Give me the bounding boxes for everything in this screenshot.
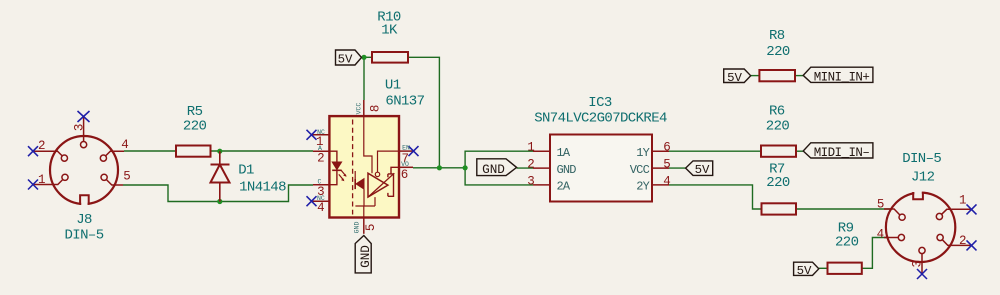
R5 value bbox=[183, 119, 207, 135]
J8 pin 3 bbox=[81, 117, 87, 148]
no-connect U1 pin 1 bbox=[307, 130, 317, 140]
junction at 5V/R10 bbox=[361, 55, 366, 60]
svg-text:EN: EN bbox=[402, 144, 410, 151]
IC3 pin number 5 bbox=[663, 158, 671, 172]
svg-text:6N137: 6N137 bbox=[385, 93, 424, 109]
IC3 pin number 1 bbox=[527, 141, 535, 155]
resistor R10 bbox=[372, 52, 408, 63]
U1 internal dashed isolation line bbox=[352, 120, 354, 215]
J8 pin 2 bbox=[33, 151, 68, 161]
R5 reference bbox=[187, 104, 203, 120]
svg-text:1Y: 1Y bbox=[636, 146, 649, 160]
svg-text:R5: R5 bbox=[187, 104, 203, 120]
svg-text:3: 3 bbox=[72, 124, 86, 132]
svg-text:J12: J12 bbox=[911, 170, 935, 186]
J12 pin number 3 bbox=[911, 260, 925, 268]
svg-text:5V: 5V bbox=[797, 264, 812, 278]
U1 optical arrows bbox=[339, 170, 347, 181]
IC3 value SN74LVC2G07DCKRE4 bbox=[534, 110, 667, 126]
wire 5V to R8 bbox=[751, 75, 760, 77]
wire R7 to J12 pin5 bbox=[796, 208, 891, 210]
svg-text:2: 2 bbox=[317, 151, 325, 165]
U1 pin name VO bbox=[401, 161, 409, 168]
svg-text:IC3: IC3 bbox=[588, 95, 612, 111]
IC3 pin name 1A bbox=[557, 146, 571, 160]
R9 value bbox=[835, 235, 859, 251]
U1 pin 3 C bbox=[313, 184, 329, 186]
diode D1 bbox=[211, 151, 230, 201]
svg-text:DIN–5: DIN–5 bbox=[64, 228, 103, 244]
resistor R9 bbox=[828, 263, 862, 274]
svg-text:4: 4 bbox=[121, 138, 129, 152]
wire IC3 pin4 to R7 bbox=[669, 185, 762, 209]
J12 reference bbox=[911, 170, 935, 186]
no-connect U1 pin 7 bbox=[409, 146, 419, 156]
svg-text:220: 220 bbox=[183, 119, 207, 135]
U1 pin number 1 bbox=[316, 135, 324, 149]
svg-text:1N4148: 1N4148 bbox=[239, 179, 286, 195]
D1 value bbox=[239, 179, 286, 195]
IC3 pin 1 bbox=[533, 150, 550, 152]
no-connect J12 pin 3 bbox=[917, 269, 927, 279]
U1 reference bbox=[385, 78, 401, 94]
R6 reference bbox=[769, 103, 785, 119]
J12 pin number 4 bbox=[877, 228, 885, 242]
J8 pin number 3 bbox=[72, 124, 86, 132]
svg-text:J8: J8 bbox=[76, 212, 92, 228]
U1 pin name VCC bbox=[356, 103, 363, 115]
wire R8 to MINI_IN+ label bbox=[795, 75, 803, 77]
U1 pin 7 EN bbox=[399, 150, 414, 152]
svg-text:5V: 5V bbox=[727, 71, 742, 85]
J12 pin number 1 bbox=[959, 193, 967, 207]
wire 5V to R9 bbox=[819, 267, 828, 269]
svg-text:5V: 5V bbox=[695, 163, 710, 177]
U1 pin 6 VO bbox=[399, 166, 413, 168]
R9 reference bbox=[838, 220, 854, 236]
svg-text:8: 8 bbox=[369, 105, 383, 113]
IC3 pin number 4 bbox=[663, 174, 671, 188]
resistor R5 bbox=[176, 146, 211, 157]
U1 pin number 3 bbox=[317, 185, 325, 199]
svg-text:2Y: 2Y bbox=[636, 180, 649, 194]
U1 pin number 6 bbox=[401, 168, 409, 182]
J8 pin 4 bbox=[100, 151, 124, 161]
svg-text:3: 3 bbox=[527, 174, 535, 188]
svg-text:2: 2 bbox=[38, 139, 46, 153]
svg-text:5: 5 bbox=[877, 198, 885, 212]
no-connect J12 pin 1 bbox=[967, 204, 977, 214]
power flag 5V (at IC3 pin5) bbox=[686, 161, 713, 177]
svg-text:4: 4 bbox=[663, 174, 671, 188]
resistor R6 bbox=[761, 146, 796, 157]
svg-text:5: 5 bbox=[123, 169, 131, 183]
U1 pin name GND bbox=[354, 222, 361, 234]
U1 pin name NC (pin4) bbox=[317, 195, 325, 202]
svg-text:R8: R8 bbox=[769, 28, 785, 44]
power flag 5V (at R8) bbox=[724, 69, 751, 85]
no-connect J12 pin 2 bbox=[967, 240, 977, 250]
svg-text:220: 220 bbox=[766, 44, 790, 60]
U1 pin 4 NC bbox=[313, 200, 330, 202]
wire R10 to U1 pin6 node bbox=[408, 57, 439, 168]
global label MIDI_IN- bbox=[803, 143, 873, 160]
J12 pin number 5 bbox=[877, 198, 885, 212]
D1 reference bbox=[238, 163, 254, 179]
R10 value bbox=[381, 23, 398, 39]
U1 pin number 5 bbox=[364, 224, 378, 232]
optocoupler U1 body bbox=[329, 116, 399, 217]
U1 internal GND path bbox=[355, 197, 375, 217]
svg-text:220: 220 bbox=[766, 119, 790, 135]
wire node to IC3 pin3 bbox=[465, 168, 533, 185]
svg-text:GND: GND bbox=[354, 222, 361, 234]
U1 pin number 2 bbox=[317, 151, 325, 165]
U1 pin 2 A bbox=[313, 150, 329, 152]
IC3 pin name 1Y bbox=[636, 146, 649, 160]
IC3 pin name VCC bbox=[630, 163, 650, 177]
svg-text:1: 1 bbox=[527, 141, 535, 155]
U1 pin name A bbox=[318, 145, 322, 152]
J8 pin number 1 bbox=[38, 173, 46, 187]
wire J8 pin4 to R5 bbox=[124, 150, 176, 152]
power flag 5V (at R9) bbox=[794, 262, 819, 278]
J8 value DIN-5 bbox=[64, 228, 103, 244]
IC3 pin number 6 bbox=[663, 141, 671, 155]
U1 pin name EN bbox=[402, 144, 410, 151]
U1 pin number 8 bbox=[369, 105, 383, 113]
J12 pin number 2 bbox=[959, 234, 967, 248]
junction IC3 input split bbox=[463, 165, 468, 170]
R10 reference bbox=[377, 10, 401, 26]
U1 pin name C bbox=[317, 179, 321, 186]
wire junction down to U1 pin8 bbox=[363, 57, 365, 100]
svg-text:MIDI_IN–: MIDI_IN– bbox=[814, 146, 870, 160]
IC3 pin 2 bbox=[533, 167, 550, 169]
svg-text:VCC: VCC bbox=[356, 103, 363, 115]
svg-text:5: 5 bbox=[364, 224, 378, 232]
R7 reference bbox=[769, 161, 785, 177]
no-connect J8 pin 3 bbox=[78, 111, 90, 122]
svg-text:220: 220 bbox=[766, 175, 790, 191]
U1 pin number 7 bbox=[401, 152, 409, 166]
svg-text:2: 2 bbox=[959, 234, 967, 248]
U1 pin name NC (pin1) bbox=[317, 129, 325, 136]
J12 pin 1 bbox=[936, 209, 971, 219]
svg-text:4: 4 bbox=[317, 201, 325, 215]
U1 internal VCC path bbox=[364, 116, 372, 173]
U1 value 6N137 bbox=[385, 93, 424, 109]
svg-text:R6: R6 bbox=[769, 103, 785, 119]
U1 pin 5 GND bbox=[363, 218, 365, 234]
svg-text:2A: 2A bbox=[557, 180, 571, 194]
junction R5/D1 top bbox=[217, 149, 222, 154]
wire 5V to R10 bbox=[361, 56, 372, 58]
IC3 pin number 2 bbox=[527, 158, 535, 172]
global label MINI_IN+ bbox=[803, 67, 873, 84]
IC3 reference bbox=[588, 95, 612, 111]
wire J8 pin5 to D1 bottom to U1 pin3 bbox=[123, 185, 313, 202]
ground flag GND (below U1) bbox=[355, 236, 373, 273]
svg-text:1A: 1A bbox=[557, 146, 571, 160]
no-connect U1 pin 4 bbox=[307, 196, 317, 206]
IC3 pin 5 bbox=[652, 167, 669, 169]
wire IC3 pin5 to 5V flag bbox=[669, 167, 686, 169]
IC3 pin name 2A bbox=[557, 180, 571, 194]
svg-text:MINI_IN+: MINI_IN+ bbox=[814, 70, 870, 84]
svg-text:D1: D1 bbox=[238, 163, 254, 179]
connector J8 body bbox=[50, 136, 118, 208]
R6 value bbox=[766, 119, 790, 135]
U1 internal photodiode bbox=[355, 171, 364, 206]
svg-text:VCC: VCC bbox=[630, 163, 650, 177]
svg-text:U1: U1 bbox=[385, 78, 401, 94]
U1 pin 8 VCC bbox=[363, 100, 365, 116]
svg-text:4: 4 bbox=[877, 228, 885, 242]
IC3 pin number 3 bbox=[527, 174, 535, 188]
svg-text:VO: VO bbox=[401, 161, 409, 168]
wire IC3 pin6 to R6 bbox=[669, 150, 761, 152]
U1 internal open-drain output symbol bbox=[368, 167, 399, 197]
power flag 5V (top left) bbox=[336, 50, 362, 67]
J8 pin number 4 bbox=[121, 138, 129, 152]
IC3 pin 6 bbox=[652, 150, 669, 152]
wire node to IC3 pin1 bbox=[465, 151, 533, 168]
svg-text:6: 6 bbox=[401, 168, 409, 182]
wire U1 pin6 to IC3 input node bbox=[413, 167, 465, 169]
svg-text:GND: GND bbox=[557, 163, 577, 177]
J8 reference bbox=[76, 212, 92, 228]
svg-text:5V: 5V bbox=[338, 53, 353, 67]
J12 pin 4 bbox=[884, 234, 905, 240]
connector J12 body bbox=[886, 189, 955, 263]
IC IC3 body bbox=[550, 135, 652, 202]
U1 internal LED branch bbox=[329, 151, 341, 185]
svg-text:GND: GND bbox=[482, 162, 505, 177]
resistor R7 bbox=[762, 203, 797, 214]
svg-text:1K: 1K bbox=[381, 23, 398, 39]
svg-text:SN74LVC2G07DCKRE4: SN74LVC2G07DCKRE4 bbox=[534, 110, 667, 126]
wire GND flag to IC3 pin2 bbox=[517, 167, 533, 169]
wire R5 to U1 pin2 bbox=[211, 150, 314, 152]
J8 pin number 2 bbox=[38, 139, 46, 153]
no-connect J8 pin 2 bbox=[28, 146, 38, 156]
IC3 pin name 2Y bbox=[636, 180, 649, 194]
svg-text:1: 1 bbox=[959, 193, 967, 207]
resistor R8 bbox=[759, 70, 795, 81]
J8 pin 5 bbox=[101, 174, 123, 185]
svg-text:5: 5 bbox=[663, 158, 671, 172]
R8 value bbox=[766, 44, 790, 60]
junction D1 bottom bbox=[217, 199, 222, 204]
svg-text:1: 1 bbox=[38, 173, 46, 187]
wire R6 to MIDI_IN- label bbox=[796, 150, 804, 152]
svg-text:GND: GND bbox=[358, 245, 373, 268]
R8 reference bbox=[769, 28, 785, 44]
J12 value DIN-5 bbox=[902, 151, 941, 167]
svg-text:DIN–5: DIN–5 bbox=[902, 151, 941, 167]
IC3 pin 4 bbox=[652, 184, 669, 186]
J12 pin 5 bbox=[884, 209, 905, 220]
svg-text:2: 2 bbox=[527, 158, 535, 172]
U1 internal enable bubble bbox=[375, 151, 399, 176]
U1 internal amplifier triangle bbox=[368, 173, 388, 197]
svg-text:6: 6 bbox=[663, 141, 671, 155]
U1 pin number 4 bbox=[317, 201, 325, 215]
svg-text:3: 3 bbox=[911, 260, 925, 268]
IC3 pin 3 bbox=[533, 184, 550, 186]
no-connect J8 pin 1 bbox=[28, 180, 38, 190]
J12 pin 3 bbox=[919, 247, 925, 273]
J8 pin 1 bbox=[33, 174, 68, 184]
wire R9 to J12 pin4 bbox=[862, 238, 887, 269]
R7 value bbox=[766, 175, 790, 191]
ground flag GND (at IC3 pin2) bbox=[477, 159, 517, 177]
J8 pin number 5 bbox=[123, 169, 131, 183]
junction R10/U1 VO bbox=[437, 165, 442, 170]
svg-text:220: 220 bbox=[835, 235, 859, 251]
U1 pin 1 NC bbox=[313, 134, 330, 136]
J12 pin 2 bbox=[937, 234, 972, 245]
IC3 pin name GND bbox=[557, 163, 577, 177]
